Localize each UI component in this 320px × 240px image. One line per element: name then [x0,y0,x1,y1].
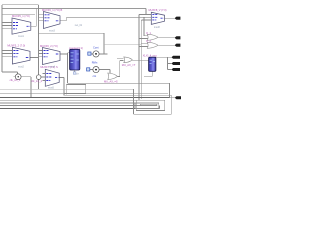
svg-text:counter(1:1): counter(1:1) [69,46,83,50]
svg-text:MUXF5_1 (7:0): MUXF5_1 (7:0) [12,14,30,18]
svg-text:mux8: mux8 [154,26,161,29]
svg-text:mux4: mux4 [49,65,56,68]
svg-text:MU_AX_=T: MU_AX_=T [122,63,136,67]
svg-text:O_1: O_1 [146,31,151,35]
svg-text:MU_AX_=S: MU_AX_=S [104,80,118,84]
svg-text:MUXF8_V (7:0): MUXF8_V (7:0) [149,8,167,12]
svg-text:mux2: mux2 [18,66,25,69]
svg-text:MUXF6_1 (7:0) B: MUXF6_1 (7:0) B [42,8,62,12]
svg-text:clk_inv_1: clk_inv_1 [10,78,21,82]
svg-text:clk_inv_2: clk_inv_2 [31,79,42,83]
svg-text:mux5: mux5 [48,87,55,90]
svg-text:MUXF5_2 (7:0): MUXF5_2 (7:0) [7,43,25,47]
svg-text:mux3: mux3 [49,30,56,33]
svg-text:XLXI_4_reg: XLXI_4_reg [143,53,157,57]
svg-text:cnt: cnt [93,74,97,78]
svg-text:O_2: O_2 [146,39,151,43]
svg-text:MUXF6_2 (7:0): MUXF6_2 (7:0) [40,44,58,48]
svg-text:Cont: Cont [93,46,99,50]
svg-text:net_01: net_01 [75,24,83,27]
svg-text:RMn: RMn [92,60,98,64]
svg-text:mux1: mux1 [18,35,25,38]
svg-text:ctr: ctr [76,73,79,76]
